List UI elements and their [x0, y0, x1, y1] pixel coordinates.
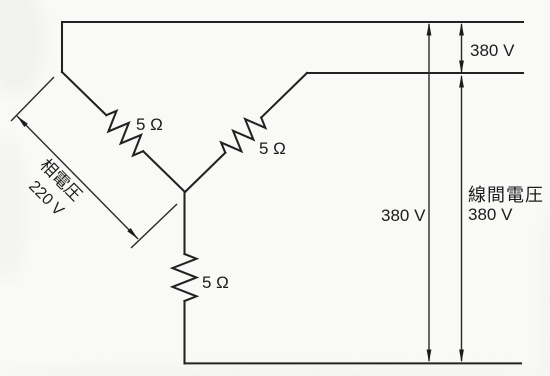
- extension line, phase-voltage dimension lower end: [131, 204, 177, 248]
- extension line, phase-voltage dimension upper end: [11, 77, 54, 121]
- arrowhead dim A bottom: [427, 350, 432, 363]
- wire: branch 3 lower lead: [183, 301, 185, 363]
- wire: branch 3 upper lead: [183, 192, 185, 254]
- wire: bottom phase line: [185, 362, 522, 364]
- dimension line B upper segment (380 V between top lines): [461, 24, 463, 72]
- wire: top phase line: [62, 22, 523, 72]
- resistor R3 5ohm (vertical branch): [173, 254, 197, 301]
- dimension line, phase voltage 220 V: [17, 116, 138, 239]
- arrowhead dim B upper segment bottom: [459, 61, 464, 74]
- arrowhead phase dimension upper: [17, 116, 28, 127]
- dimension line A (380 V, full height): [428, 24, 430, 361]
- wire: branch 1 lower lead to node N: [143, 151, 185, 192]
- wire: second phase line: [307, 72, 523, 74]
- arrowhead dim A top: [427, 23, 432, 36]
- wire: branch 2 upper lead to corner: [261, 73, 307, 118]
- wire: branch 1 upper lead: [62, 72, 106, 115]
- arrowhead phase dimension lower: [127, 228, 138, 239]
- arrowhead dim B upper segment top: [459, 23, 464, 36]
- svg-text:5 Ω: 5 Ω: [202, 273, 229, 292]
- svg-text:5 Ω: 5 Ω: [136, 115, 163, 134]
- svg-text:380 V: 380 V: [381, 206, 426, 225]
- dimension line B lower segment (line voltage 380 V): [461, 76, 463, 361]
- wire: branch 2 lower lead from node N: [185, 153, 225, 192]
- svg-text:線間電圧: 線間電圧: [468, 185, 544, 205]
- svg-text:380 V: 380 V: [468, 205, 513, 224]
- svg-text:380 V: 380 V: [470, 41, 515, 60]
- resistor R1 5ohm (upper-left branch): [106, 111, 143, 156]
- arrowhead dim B lower segment top: [459, 75, 464, 88]
- svg-text:5 Ω: 5 Ω: [259, 139, 286, 158]
- arrowhead dim B lower segment bottom: [459, 350, 464, 363]
- resistor R2 5ohm (right branch): [221, 118, 265, 153]
